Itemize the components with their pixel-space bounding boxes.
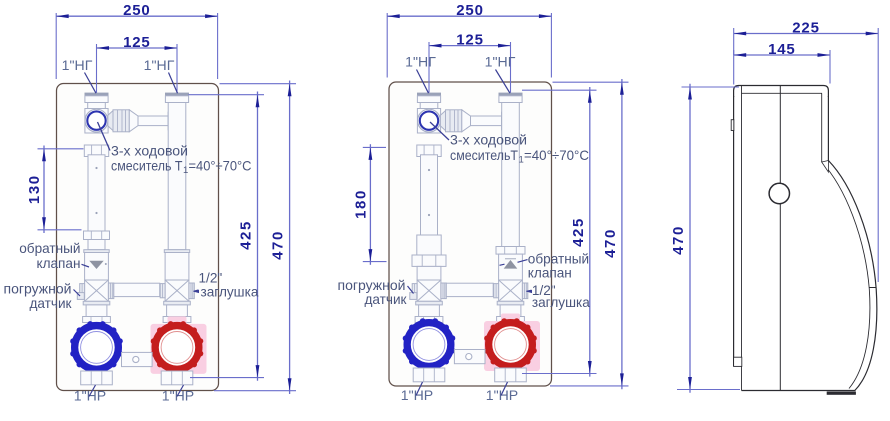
label погружной датчик left module [4, 281, 73, 311]
middle module hex under mixer [417, 145, 441, 157]
leader to pipe 2 top [169, 73, 178, 94]
side view inner top line [742, 92, 823, 94]
flow cone inside middle module pipe 2 [501, 112, 503, 130]
middle module pipe 1 wide section [417, 235, 441, 255]
return union ring red middle module [484, 318, 537, 371]
svg-text:1"НГ: 1"НГ [405, 53, 436, 69]
left module mounting box outline [57, 84, 219, 391]
svg-text:1"НГ: 1"НГ [144, 57, 175, 73]
middle module pipe 1 upper tube [420, 103, 438, 110]
label обратный клапан middle module [528, 251, 589, 280]
pump union ring blue left module [70, 321, 123, 374]
svg-text:3-х ходовой: 3-х ходовой [111, 143, 188, 158]
svg-text:145: 145 [768, 41, 795, 58]
label обратный клапан left module [19, 241, 80, 271]
dimension 250 left module [56, 2, 217, 79]
side view inner rear curve [822, 162, 870, 389]
middle module pipe2 collar [496, 247, 525, 255]
leader pipe1 bottom [416, 382, 423, 396]
svg-text:обратный: обратный [528, 251, 589, 266]
return union ring red left module [151, 321, 204, 374]
left module mixer horizontal outlet [108, 110, 177, 132]
svg-text:470: 470 [270, 230, 287, 260]
leader arrow to plug [526, 290, 532, 293]
middle module pipe 1 lower body [417, 266, 441, 280]
left module pipe 1 lower fitting stack [83, 301, 111, 322]
svg-text:датчик: датчик [364, 292, 407, 307]
side view rear straight edge [827, 96, 829, 161]
dimension 145 side view [734, 41, 830, 84]
chamfer wedge at rear corner [822, 161, 829, 173]
label 1/2" заглушка middle module [532, 283, 590, 310]
left module bottom hex nut pipe 1 [81, 371, 113, 385]
leader to pipe 2 top [496, 70, 511, 94]
side view inner rear line [821, 93, 823, 162]
middle module horizontal connecting pipe [446, 283, 493, 296]
middle module cross fitting pipe 1 [412, 280, 446, 301]
middle module mixer horizontal outlet [440, 110, 510, 132]
middle module pipe 2 check valve body [499, 254, 523, 280]
svg-text:125: 125 [123, 34, 150, 51]
leader pipe2 bottom [177, 385, 184, 397]
front top clip tab [731, 120, 734, 131]
svg-text:470: 470 [670, 225, 687, 255]
svg-text:425: 425 [238, 220, 255, 250]
middle module pipe 1 tube with centerline dots [421, 155, 438, 235]
svg-text:180: 180 [352, 189, 369, 219]
svg-text:425: 425 [570, 217, 587, 247]
dimension 125 middle module [429, 31, 511, 92]
side view top edge [734, 86, 829, 98]
dimension 130 left module [26, 146, 84, 234]
svg-text:250: 250 [456, 2, 483, 19]
leader arrow to plug [193, 290, 199, 293]
leader to check valve [82, 264, 90, 267]
left module horizontal connecting pipe [114, 283, 160, 296]
left module mounting bracket with hole [122, 352, 153, 366]
3-way mixer valve body left module [85, 109, 108, 134]
left module pipe 1 short tube [88, 240, 105, 250]
svg-text:клапан: клапан [528, 266, 572, 281]
middle module pipe 2 top connection cap [499, 93, 522, 103]
dimension 250 middle module [387, 2, 551, 78]
leader pipe2 bottom [501, 382, 508, 396]
side view silhouette fill [734, 86, 877, 391]
middle module union nut pipe1 [412, 255, 446, 266]
svg-text:смесительТ: смесительТ [450, 148, 518, 163]
left module pipe 2 upper tube [168, 103, 186, 250]
middle module bottom hex nut pipe 1 [413, 368, 445, 382]
svg-text:смеситель Т: смеситель Т [111, 159, 183, 174]
dimension 180 middle module [352, 144, 386, 265]
svg-text:датчик: датчик [29, 296, 72, 311]
leader from mixer circle to label [430, 122, 449, 140]
svg-text:1: 1 [519, 154, 524, 165]
dimension 470 middle module [550, 79, 629, 389]
dimension 425 middle module [522, 87, 597, 377]
left module cross fitting pipe 2 [160, 280, 194, 301]
leader to sensor pocket [408, 286, 414, 294]
svg-text:клапан: клапан [36, 256, 80, 271]
svg-text:1/2": 1/2" [199, 270, 223, 285]
left module pipe 1 upper tube [88, 103, 106, 110]
side view hole circle [769, 183, 789, 203]
left module pipe 1 tube with centerline dots [88, 155, 105, 231]
svg-text:заглушка: заглушка [532, 295, 590, 310]
leader to check valve [500, 260, 528, 266]
middle module pipe 2 lower fitting stack [497, 301, 525, 322]
leader to pipe 1 top [417, 70, 429, 94]
check valve symbol (triangle up) middle module [504, 259, 518, 269]
check valve symbol (triangle) left module [89, 261, 107, 269]
left module cross fitting pipe 1 [80, 280, 114, 301]
svg-text:=40°÷70°С: =40°÷70°С [524, 148, 589, 163]
svg-text:=40°÷70°С: =40°÷70°С [189, 159, 252, 174]
dimension 470 left module [214, 81, 296, 395]
bottom lip [827, 392, 856, 395]
svg-text:обратный: обратный [19, 241, 80, 256]
left module pipe 2 lower fitting stack [163, 301, 191, 322]
side view rear outer curve [828, 161, 876, 391]
pink highlight behind red ring middle module [484, 314, 540, 380]
left module hex under mixer [84, 145, 108, 157]
flow cone inside left module pipe 2 [167, 112, 169, 130]
3-way mixer valve body middle module [417, 109, 440, 134]
svg-text:1"НГ: 1"НГ [485, 53, 516, 69]
leader to sensor pocket [74, 290, 81, 297]
front bottom clip tab [734, 357, 742, 366]
side view front outer edge [733, 96, 735, 366]
label 3-way mixer left module [111, 143, 252, 176]
left module pipe 1 top connection cap [85, 93, 108, 103]
pump union ring blue middle module [403, 318, 456, 371]
svg-text:погружной: погружной [338, 278, 406, 293]
svg-text:470: 470 [602, 228, 619, 258]
side view center divider [779, 86, 781, 391]
immersion sensor pocket middle module [410, 293, 417, 300]
left module check valve body pipe 1 [84, 250, 109, 280]
svg-text:погружной: погружной [4, 281, 72, 296]
left module bottom hex nut pipe 2 [161, 371, 193, 385]
dimension 225 side view [734, 19, 879, 282]
left module pipe 2 valve body [164, 250, 189, 280]
svg-text:125: 125 [456, 31, 483, 48]
middle module bottom hex nut pipe 2 [495, 368, 527, 382]
left module pipe 2 top connection cap [165, 93, 188, 103]
middle module mounting box outline [389, 82, 552, 386]
pink highlight behind red ring left module [151, 316, 207, 382]
immersion sensor pocket left module [77, 293, 84, 300]
dimension 425 left module [189, 92, 265, 381]
svg-text:225: 225 [792, 19, 819, 36]
svg-text:1: 1 [183, 165, 188, 176]
svg-text:1"НГ: 1"НГ [62, 57, 93, 73]
svg-text:250: 250 [123, 2, 150, 19]
svg-text:3-х ходовой: 3-х ходовой [450, 132, 527, 147]
left module union nut pipe1 [84, 231, 110, 240]
middle module pipe 1 lower fitting stack [415, 301, 443, 322]
middle module mounting bracket with hole [454, 350, 485, 364]
leader from mixer circle to label [98, 122, 111, 151]
middle module cross fitting pipe 2 [494, 280, 528, 301]
middle module pipe 1 top connection cap [417, 93, 440, 103]
svg-text:130: 130 [26, 174, 43, 204]
svg-text:заглушка: заглушка [201, 285, 259, 300]
dimension 125 left module [97, 34, 178, 93]
leader to pipe 1 top [85, 73, 97, 94]
label 3-way mixer middle module [450, 132, 589, 165]
middle module pipe 2 upper tube [502, 103, 520, 247]
label 1/2" заглушка left module [199, 270, 259, 299]
dimension 470 side view [670, 84, 740, 393]
tick across rear curves [869, 287, 876, 289]
label погружной датчик middle module [338, 278, 408, 307]
side view bottom edge [742, 390, 856, 392]
leader pipe1 bottom [89, 385, 96, 397]
side view inner front line [741, 86, 743, 391]
